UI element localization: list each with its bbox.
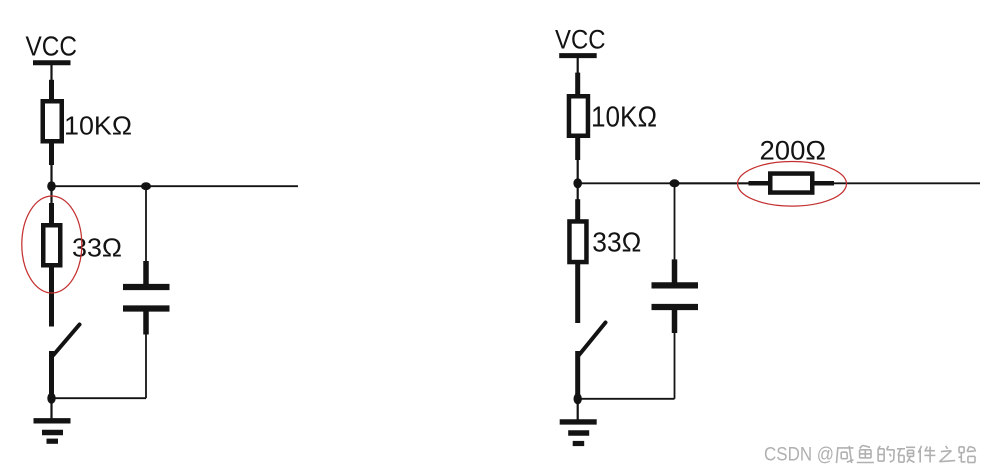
capacitor C top plate (right) (652, 282, 699, 288)
wire node A to R2 (left) (50, 186, 52, 205)
ground symbol bar 3 (right) (573, 441, 585, 446)
capacitor C top plate (left) (123, 284, 170, 290)
watermark glyph de (878, 446, 894, 462)
wire R5 to output (right) (832, 182, 980, 184)
wire node A to R2 (right) (577, 183, 579, 201)
watermark glyph yu (857, 445, 874, 462)
wire node B to R5 (right) (675, 182, 751, 184)
watermark glyph jian (918, 446, 935, 463)
capacitor C top lead (right) (672, 259, 678, 283)
svg-text:VCC: VCC (26, 31, 78, 62)
watermark glyph zhi (939, 446, 955, 462)
R1 bottom lead (left) (49, 142, 54, 166)
wire capacitor to node C (right) (674, 331, 676, 399)
junction node B (left) (141, 182, 151, 190)
junction node A (left) (47, 181, 56, 191)
svg-text:33Ω: 33Ω (72, 235, 122, 263)
wire node C to ground (left) (50, 398, 52, 421)
wire VCC bar down (right) (577, 56, 579, 74)
wire VCC bar down (left) (50, 63, 52, 81)
red highlight ellipse around R5 (738, 162, 847, 207)
wire node C to capacitor branch (left) (52, 397, 147, 399)
svg-text:10KΩ: 10KΩ (64, 112, 132, 140)
R1 top lead (right) (575, 73, 580, 97)
R2 bottom lead / switch top contact (left) (49, 266, 54, 327)
svg-text:10KΩ: 10KΩ (591, 101, 657, 133)
capacitor C bottom lead (right) (672, 309, 678, 333)
power symbol VCC bar (left) (33, 60, 71, 65)
R1 bottom lead (right) (575, 136, 580, 160)
switch bottom contact lead (right) (575, 351, 580, 395)
ground symbol bar 1 (left) (34, 418, 71, 423)
ground symbol bar 1 (right) (560, 419, 597, 424)
R5 right lead (813, 181, 835, 186)
wire capacitor to node C (left) (145, 333, 147, 399)
R1 top lead (left) (49, 80, 54, 102)
ground symbol bar 3 (left) (47, 439, 59, 444)
junction node C (left) (47, 393, 55, 404)
svg-text:VCC: VCC (555, 25, 606, 55)
red highlight ellipse around R2 (left) (22, 196, 82, 293)
switch S blade (right) (579, 323, 606, 356)
wire node B to capacitor (left) (145, 186, 147, 263)
wire R1 to node A (right) (577, 158, 579, 183)
wire node A horizontal (right) (578, 182, 749, 184)
R2 bottom lead / switch top contact (right) (575, 262, 580, 323)
wire node A horizontal (left) (52, 185, 299, 187)
junction node B (right) (670, 179, 680, 187)
junction node A (right) (573, 178, 582, 188)
ground symbol bar 2 (right) (568, 430, 589, 436)
watermark glyph xian (837, 446, 854, 463)
R2 top lead (right) (575, 199, 580, 222)
capacitor C bottom plate (right) (652, 304, 699, 310)
resistor R2 33 ohm body (left) (43, 225, 60, 265)
resistor R1 10K ohm body (right) (569, 96, 588, 136)
wire node B to capacitor (right) (674, 183, 676, 261)
R5 left lead (749, 181, 771, 186)
switch bottom contact lead (left) (49, 351, 54, 395)
wire node C to capacitor branch (right) (578, 398, 675, 400)
R2 top lead (left) (49, 203, 54, 226)
wire node C to ground (right) (577, 399, 579, 422)
resistor R1 10K ohm body (left) (43, 101, 62, 141)
capacitor C top lead (left) (143, 261, 149, 285)
svg-text:33Ω: 33Ω (592, 226, 641, 257)
capacitor C bottom plate (left) (123, 305, 170, 311)
svg-text:CSDN @: CSDN @ (764, 445, 834, 466)
capacitor C bottom lead (left) (143, 311, 149, 335)
wire R1 to node A (left) (50, 163, 52, 186)
power symbol VCC bar (right) (559, 53, 597, 58)
resistor R2 33 ohm body (right) (569, 221, 586, 262)
junction node C (right) (574, 393, 582, 404)
watermark glyph lu (958, 447, 975, 463)
resistor R5 200 ohm body (770, 174, 812, 193)
ground symbol bar 2 (left) (42, 430, 63, 436)
watermark glyph ying (897, 447, 915, 462)
switch S blade (left) (53, 325, 80, 356)
